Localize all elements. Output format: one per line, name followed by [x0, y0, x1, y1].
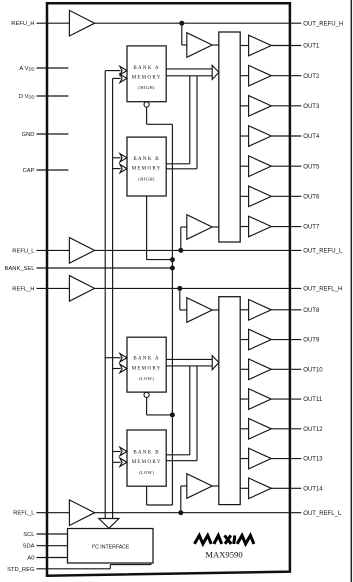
svg-text:REFU_H: REFU_H: [11, 21, 34, 27]
svg-text:OUT7: OUT7: [303, 225, 320, 231]
svg-text:A0: A0: [27, 555, 34, 561]
svg-text:D VDD: D VDD: [19, 94, 35, 100]
svg-text:BANK_SEL: BANK_SEL: [5, 266, 36, 272]
svg-text:MEMORY: MEMORY: [132, 460, 162, 465]
svg-text:OUT5: OUT5: [303, 164, 320, 170]
svg-text:CAP: CAP: [23, 168, 35, 174]
svg-text:BANK A: BANK A: [133, 66, 160, 71]
svg-text:A VDD: A VDD: [19, 66, 34, 72]
svg-text:OUT11: OUT11: [303, 397, 323, 403]
svg-text:OUT9: OUT9: [303, 338, 320, 344]
svg-text:OUT13: OUT13: [303, 457, 323, 463]
svg-text:OUT12: OUT12: [303, 427, 323, 433]
svg-text:(HIGH): (HIGH): [138, 85, 155, 90]
svg-text:I2C INTERFACE: I2C INTERFACE: [92, 544, 130, 551]
svg-text:MAX9590: MAX9590: [205, 550, 242, 560]
svg-text:REFU_L: REFU_L: [12, 248, 35, 254]
svg-text:(LOW): (LOW): [139, 470, 154, 475]
svg-text:MEMORY: MEMORY: [132, 167, 162, 172]
svg-text:OUT_REFL_L: OUT_REFL_L: [303, 511, 342, 517]
svg-text:REFL_H: REFL_H: [12, 286, 34, 292]
svg-text:BANK B: BANK B: [133, 157, 160, 162]
svg-text:MEMORY: MEMORY: [132, 366, 162, 371]
svg-text:(HIGH): (HIGH): [138, 176, 155, 181]
svg-text:OUT1: OUT1: [303, 44, 320, 50]
svg-text:OUT2: OUT2: [303, 74, 320, 80]
svg-text:MEMORY: MEMORY: [132, 76, 162, 81]
svg-text:OUT4: OUT4: [303, 134, 320, 140]
svg-text:OUT_REFL_H: OUT_REFL_H: [303, 287, 342, 293]
svg-text:(LOW): (LOW): [139, 376, 154, 381]
svg-text:GND: GND: [22, 132, 35, 138]
svg-text:SCL: SCL: [23, 532, 35, 538]
svg-text:STD_REG: STD_REG: [7, 567, 35, 573]
svg-text:OUT_REFU_L: OUT_REFU_L: [303, 249, 343, 255]
svg-text:REFL_L: REFL_L: [13, 511, 35, 517]
svg-text:SDA: SDA: [23, 544, 35, 550]
svg-text:OUT3: OUT3: [303, 104, 320, 110]
svg-text:BANK B: BANK B: [133, 450, 160, 455]
svg-text:OUT14: OUT14: [303, 486, 323, 492]
svg-text:OUT6: OUT6: [303, 194, 320, 200]
svg-text:OUT10: OUT10: [303, 367, 323, 373]
svg-text:BANK A: BANK A: [133, 357, 160, 362]
svg-text:OUT_REFU_H: OUT_REFU_H: [303, 21, 343, 27]
svg-text:OUT8: OUT8: [303, 308, 320, 314]
